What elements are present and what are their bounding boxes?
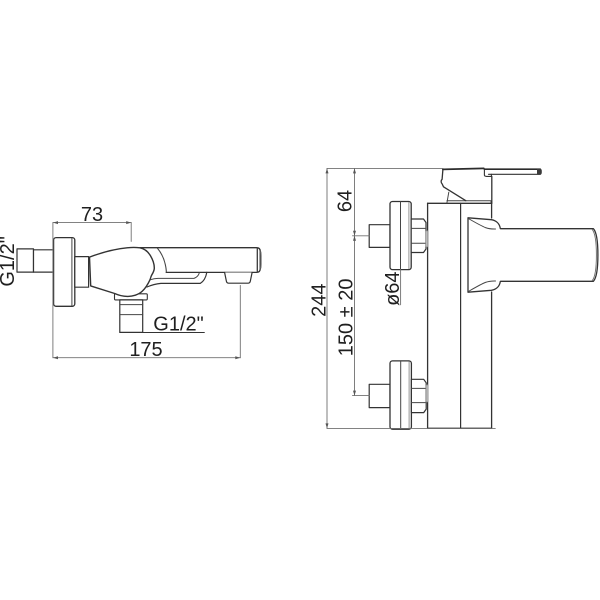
svg-text:73: 73 xyxy=(81,204,103,226)
cartridge housing top edge xyxy=(443,168,484,169)
top hex nut facet lines xyxy=(411,228,425,243)
svg-text:175: 175 xyxy=(129,339,162,361)
dimension 64 arrows xyxy=(353,168,356,235)
spout tube outline (side view) xyxy=(140,248,260,273)
bottom escutcheon middle line xyxy=(400,361,402,429)
body-to-spout fillet curve xyxy=(157,248,166,272)
lever neck notch xyxy=(484,169,491,176)
mixer body (side view egg shape) xyxy=(90,248,155,297)
main body block top front edge xyxy=(428,202,492,204)
dimension 150 arrows xyxy=(353,236,356,396)
dimension 73 line xyxy=(53,222,131,224)
spout flare fill (front view) xyxy=(468,218,500,292)
spout flare lower fillet xyxy=(469,281,496,291)
dimension 175 arrows xyxy=(53,356,240,359)
main body block bottom edge xyxy=(428,427,492,429)
main body block right edge upper segment xyxy=(491,203,493,218)
lever handle tip block xyxy=(537,169,541,174)
bottom wall connection stub (front view) xyxy=(369,384,390,407)
spout end inner arc xyxy=(592,229,596,280)
bottom washer sliver xyxy=(426,385,428,402)
shower outlet pipe ring lines xyxy=(120,305,143,315)
dimension 175 extension line (spout outlet centre) xyxy=(239,285,241,357)
aerator outlet block under spout end xyxy=(225,273,253,284)
dimension 175 line xyxy=(53,357,240,359)
bottom hex nut facet lines xyxy=(411,388,425,402)
bottom escutcheon edge line xyxy=(408,362,410,428)
dimension 73 extension line (outlet centre) xyxy=(130,223,132,242)
cartridge housing inner diagonal xyxy=(447,192,449,203)
bottom escutcheon disc (front view) xyxy=(390,361,411,429)
G1/2 shower outlet leader line xyxy=(120,332,205,334)
dimension 73 extension line (wall face) xyxy=(52,223,54,358)
bottom extension line (overall height) xyxy=(327,427,495,429)
spout end cap inner edge line xyxy=(256,249,258,272)
lever handle bar top xyxy=(484,168,540,170)
spout tube fill (side view) xyxy=(140,248,260,273)
top extension line (overall height) xyxy=(327,167,443,169)
cartridge housing outline xyxy=(441,169,466,200)
bottom hex nut xyxy=(411,379,426,412)
phi64 leader line xyxy=(400,270,402,305)
dimension 244 arrows xyxy=(326,168,329,428)
top wall connection stub (front view) xyxy=(369,225,390,248)
main body block left edge xyxy=(427,203,429,428)
spout under-lip top curve xyxy=(151,273,200,280)
svg-text:64: 64 xyxy=(335,190,357,212)
top escutcheon disc (front view) xyxy=(390,202,411,270)
svg-text:150 ± 20: 150 ± 20 xyxy=(336,279,358,357)
spout end cap outer bulge xyxy=(260,252,262,268)
dimension 244 line xyxy=(326,168,328,428)
leader to bottom stub centre xyxy=(353,395,370,397)
leader to top stub centre xyxy=(353,235,370,237)
wall inlet stub (side view) part 1 xyxy=(17,249,34,272)
escutcheon edge line (side view) xyxy=(71,238,73,305)
main body block middle corner line xyxy=(460,203,462,428)
spout flare outline (front view) xyxy=(468,218,500,292)
main body block top back edge xyxy=(447,201,491,204)
spout under-lip bottom curve xyxy=(147,272,207,287)
wall inlet stub (side view) part 2 xyxy=(34,250,54,272)
dimension 64 and 150 line xyxy=(354,168,356,395)
svg-text:ø64: ø64 xyxy=(382,271,404,305)
svg-text:244: 244 xyxy=(308,284,330,317)
shower outlet pipe G1/2 xyxy=(120,300,143,332)
top escutcheon edge line xyxy=(408,203,410,269)
spout tube (front view) xyxy=(495,229,598,282)
top hex nut xyxy=(411,219,426,253)
wall escutcheon disc (side view) xyxy=(54,238,75,307)
dimension 73 arrows xyxy=(53,221,131,224)
top washer sliver xyxy=(426,231,428,247)
connector between escutcheon and body xyxy=(75,257,89,288)
cartridge housing right edge xyxy=(491,176,493,203)
svg-text:G1/2": G1/2" xyxy=(0,236,19,286)
lever handle bar bottom xyxy=(489,173,541,175)
spout flare upper fillet xyxy=(469,219,496,229)
svg-text:G1/2": G1/2" xyxy=(153,313,203,335)
main body block right edge lower segment xyxy=(491,292,493,428)
top escutcheon middle line xyxy=(400,202,402,270)
shower outlet flange under body xyxy=(115,294,148,300)
